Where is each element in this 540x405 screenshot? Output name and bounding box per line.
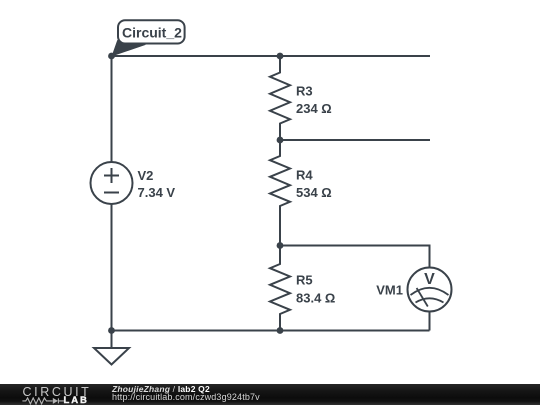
wire top net from node A to open stub	[112, 55, 431, 57]
resistor R4 534 ohm	[270, 140, 332, 246]
svg-text:V: V	[424, 271, 435, 288]
ground	[94, 331, 129, 365]
wire R3-R4 junction to right open stub	[280, 139, 430, 141]
footer attribution bar	[0, 384, 540, 405]
wire bottom net	[112, 330, 430, 332]
svg-text:7.34 V: 7.34 V	[138, 185, 176, 200]
svg-text:R4: R4	[296, 168, 313, 183]
CircuitLab logo wordmark CIRCUIT	[23, 385, 92, 399]
node label Circuit_2 (callout flag)	[112, 20, 185, 56]
wire R4-R5 junction to voltmeter top	[280, 246, 430, 268]
svg-text:534 Ω: 534 Ω	[296, 185, 332, 200]
resistor R5 83.4 ohm	[270, 246, 335, 331]
node junction dot top of R3	[277, 53, 284, 60]
svg-text:V2: V2	[138, 168, 154, 183]
svg-text:Circuit_2: Circuit_2	[122, 25, 182, 41]
svg-text:83.4 Ω: 83.4 Ω	[296, 291, 335, 306]
node junction dot A (top left)	[108, 53, 115, 60]
node junction dot R3-R4	[277, 137, 284, 144]
node junction dot ground	[108, 327, 115, 334]
wire voltmeter bottom to bottom net	[429, 312, 431, 331]
node junction dot bottom of R5	[277, 327, 284, 334]
svg-text:VM1: VM1	[376, 283, 403, 298]
svg-text:R5: R5	[296, 273, 313, 288]
svg-text:R3: R3	[296, 84, 313, 99]
voltmeter VM1	[376, 268, 451, 312]
CircuitLab logo resistor-diode glyph	[21, 397, 66, 405]
node junction dot R4-R5	[277, 242, 284, 249]
resistor R3 234 ohm	[270, 56, 332, 140]
wire left vertical bottom (V2 to ground node)	[111, 204, 113, 331]
voltage source V2 7.34 V	[91, 162, 176, 204]
wire left vertical top (node A to V2)	[111, 56, 113, 162]
svg-text:234 Ω: 234 Ω	[296, 101, 332, 116]
